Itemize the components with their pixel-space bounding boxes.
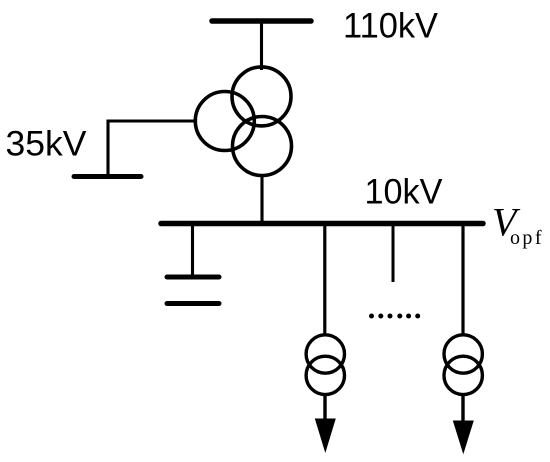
wire from 10kV bus to capacitor C1	[191, 224, 194, 275]
load arrow right	[453, 421, 474, 455]
wire from T2 to load arrow	[323, 396, 326, 441]
svg-text:10kV: 10kV	[365, 173, 444, 212]
bus B1 110kV	[212, 18, 311, 24]
ellipsis dots (more feeders)	[369, 314, 420, 319]
bus B2 35kV	[74, 174, 141, 179]
svg-text:110kV: 110kV	[343, 7, 439, 46]
wire feeder 1 from 10kV bus to transformer T2	[323, 224, 326, 335]
svg-text:opf: opf	[510, 227, 542, 249]
transformer T1 (three-winding)	[195, 67, 291, 176]
load arrow left	[315, 419, 336, 454]
transformer T2 (two-winding)	[306, 335, 344, 395]
wire from 110kV bus to transformer T1	[260, 21, 263, 70]
wire stub middle feeder	[392, 224, 395, 282]
capacitor C1	[167, 277, 219, 304]
wire from T3 to load arrow	[461, 396, 464, 443]
wire from T1 35kV winding to 35kV bus	[108, 121, 196, 177]
wire feeder 2 from 10kV bus to transformer T3	[461, 224, 464, 335]
wire from T1 10kV winding to 10kV bus	[260, 175, 263, 223]
bus B3 10kV	[161, 221, 483, 227]
svg-text:35kV: 35kV	[6, 125, 88, 164]
transformer T3 (two-winding)	[444, 335, 482, 395]
